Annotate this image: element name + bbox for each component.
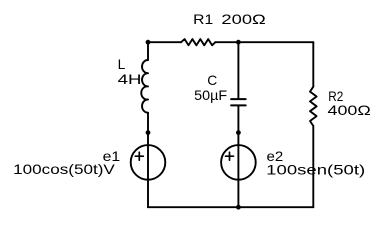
wire through e1	[147, 145, 149, 207]
svg-text:L: L	[118, 57, 126, 72]
svg-text:R2: R2	[328, 89, 343, 104]
junction top-left	[146, 40, 151, 45]
wire left upper	[147, 42, 149, 60]
svg-text:100sen(50t): 100sen(50t)	[266, 162, 365, 177]
wire top-left segment	[148, 41, 181, 43]
svg-text:C: C	[207, 73, 217, 88]
resistor R1	[181, 39, 215, 45]
wire right upper	[312, 42, 314, 86]
wire left middle	[147, 113, 149, 145]
junction bottom-middle	[236, 205, 241, 210]
plus sign e2	[226, 152, 234, 160]
wire right lower	[312, 126, 314, 207]
svg-text:400Ω: 400Ω	[328, 103, 371, 118]
svg-text:50µF: 50µF	[194, 88, 227, 103]
inductor L	[141, 60, 148, 113]
node above e2	[236, 130, 241, 135]
svg-text:200Ω: 200Ω	[221, 12, 265, 27]
wire top-right segment	[215, 41, 313, 43]
plus sign e1	[135, 152, 143, 160]
svg-text:100cos(50t)V: 100cos(50t)V	[13, 162, 116, 177]
svg-text:R1: R1	[193, 12, 213, 27]
voltage source e1	[131, 145, 166, 180]
wire middle upper	[237, 42, 239, 99]
junction top-middle	[236, 40, 241, 45]
capacitor C plates	[231, 99, 246, 105]
svg-text:4H: 4H	[118, 72, 142, 87]
wire bottom	[148, 206, 313, 208]
node above e1	[146, 130, 151, 135]
voltage source e2	[221, 145, 256, 180]
wire middle lower	[237, 105, 239, 207]
resistor R2	[310, 87, 317, 126]
